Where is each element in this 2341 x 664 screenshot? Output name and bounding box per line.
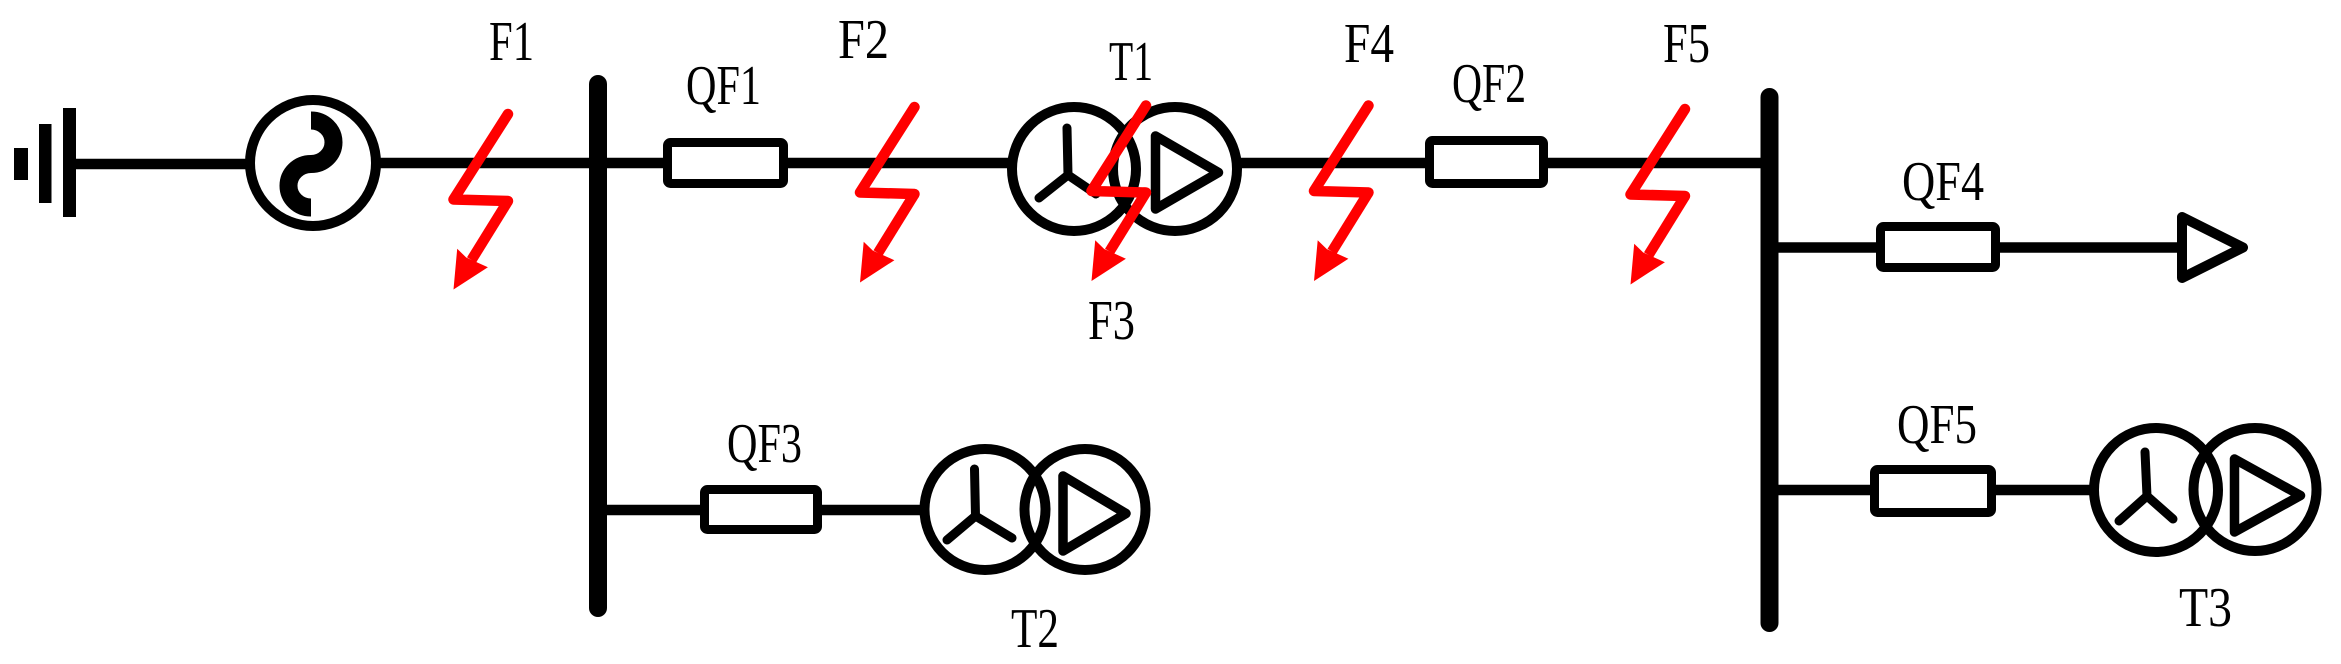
wire: transformer T1 to busbar W2 bbox=[1233, 158, 1770, 169]
transformer T1 secondary circle bbox=[1113, 107, 1237, 231]
wire: busbar W1 to transformer T2 bbox=[598, 505, 940, 516]
svg-text:QF2: QF2 bbox=[1452, 53, 1526, 115]
transformer T3 delta symbol bbox=[2235, 459, 2301, 532]
fault F5 bolt bbox=[1631, 109, 1686, 285]
svg-text:F2: F2 bbox=[838, 9, 889, 71]
svg-text:QF4: QF4 bbox=[1902, 151, 1984, 213]
svg-text:T2: T2 bbox=[1011, 598, 1059, 660]
wire: busbar W1 to transformer T1 bbox=[598, 158, 1030, 169]
svg-text:F1: F1 bbox=[489, 11, 534, 73]
load arrow bbox=[2182, 217, 2243, 278]
transformer T3 wye symbol bbox=[2119, 452, 2173, 521]
wire: ground to generator bbox=[70, 159, 256, 170]
transformer T3 primary circle bbox=[2094, 428, 2218, 552]
breaker QF4 bbox=[1881, 227, 1996, 268]
svg-text:T1: T1 bbox=[1109, 31, 1153, 93]
svg-text:F5: F5 bbox=[1663, 13, 1710, 75]
busbar W1 bbox=[589, 84, 607, 608]
svg-text:F4: F4 bbox=[1344, 13, 1394, 75]
wire: busbar W2 to load arrow (feeder) bbox=[1770, 242, 2182, 253]
transformer T2 primary circle bbox=[925, 449, 1046, 570]
generator G circle bbox=[250, 100, 376, 226]
breaker QF3 bbox=[705, 490, 818, 530]
svg-text:QF5: QF5 bbox=[1897, 394, 1977, 456]
transformer T3 secondary circle bbox=[2194, 428, 2317, 551]
svg-text:QF3: QF3 bbox=[727, 413, 802, 475]
transformer T1 primary circle bbox=[1012, 107, 1136, 231]
fault F1 bolt bbox=[454, 114, 509, 290]
generator AC symbol bbox=[289, 121, 334, 208]
ground (system source) symbol bbox=[14, 108, 76, 217]
breaker QF2 bbox=[1430, 141, 1544, 184]
transformer T2 secondary circle bbox=[1025, 449, 1146, 570]
fault F3 bolt bbox=[1092, 106, 1147, 282]
svg-text:T3: T3 bbox=[2179, 577, 2232, 639]
wire: generator to busbar W1 bbox=[370, 158, 598, 169]
busbar W2 bbox=[1761, 97, 1779, 623]
svg-text:F3: F3 bbox=[1088, 290, 1135, 352]
transformer T1 wye symbol bbox=[1039, 128, 1096, 198]
svg-text:QF1: QF1 bbox=[686, 55, 761, 117]
fault F4 bolt bbox=[1314, 106, 1369, 282]
breaker QF1 bbox=[668, 143, 784, 184]
fault F2 bolt bbox=[860, 107, 915, 283]
transformer T2 wye symbol bbox=[947, 469, 1012, 540]
wire: busbar W2 to transformer T3 bbox=[1770, 485, 2110, 496]
transformer T1 delta symbol bbox=[1156, 136, 1219, 209]
breaker QF5 bbox=[1875, 470, 1992, 513]
transformer T2 delta symbol bbox=[1063, 476, 1126, 551]
